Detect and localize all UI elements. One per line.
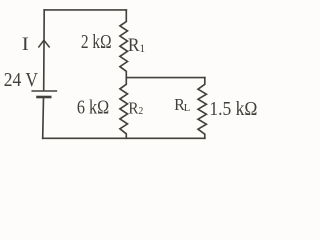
svg-text:24 V: 24 V (4, 69, 38, 92)
wire bottom horizontal (43, 137, 205, 139)
svg-text:1.5 kΩ: 1.5 kΩ (209, 98, 257, 121)
current arrow head (39, 40, 49, 47)
svg-text:6 kΩ: 6 kΩ (77, 96, 109, 118)
battery B 24V long plate (32, 90, 56, 92)
wire middle horizontal (node A to RL) (126, 77, 205, 79)
resistor R2 6k zigzag (120, 78, 128, 139)
wire left rail upper (to battery) (43, 10, 46, 90)
resistor RL 1.5k zigzag (198, 78, 206, 139)
wire top horizontal (44, 9, 126, 11)
battery B 24V short plate (38, 96, 51, 99)
wire left rail lower (battery to bottom) (42, 97, 45, 138)
resistor R1 2k zigzag (120, 10, 128, 78)
svg-text:2 kΩ: 2 kΩ (81, 30, 112, 53)
svg-text:I: I (22, 34, 29, 54)
